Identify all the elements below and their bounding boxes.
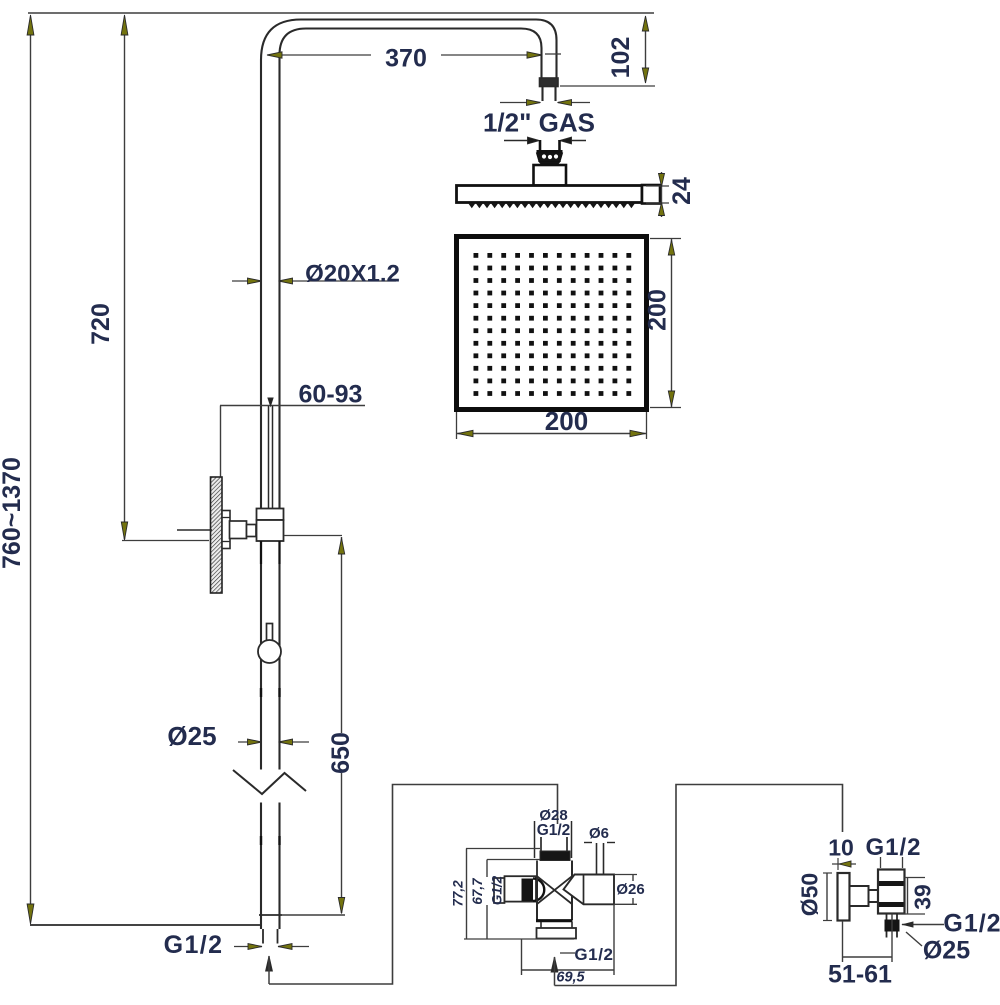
svg-text:Ø25: Ø25: [167, 721, 216, 751]
svg-text:Ø6: Ø6: [589, 825, 609, 842]
svg-text:39: 39: [910, 884, 936, 910]
svg-text:200: 200: [545, 406, 588, 436]
svg-text:1/2" GAS: 1/2" GAS: [483, 108, 595, 138]
svg-text:G1/2: G1/2: [164, 931, 224, 959]
svg-text:60-93: 60-93: [299, 381, 363, 409]
svg-text:760~1370: 760~1370: [0, 457, 26, 569]
svg-text:102: 102: [607, 37, 635, 79]
svg-text:G1/2: G1/2: [490, 875, 505, 905]
svg-text:720: 720: [87, 303, 115, 345]
svg-text:Ø50: Ø50: [797, 873, 823, 916]
svg-text:77,2: 77,2: [451, 880, 466, 907]
svg-text:G1/2: G1/2: [537, 822, 571, 839]
svg-text:G1/2: G1/2: [865, 834, 921, 861]
svg-text:650: 650: [327, 732, 355, 774]
svg-text:10: 10: [828, 835, 854, 861]
svg-text:24: 24: [668, 177, 696, 205]
svg-text:51-61: 51-61: [828, 961, 892, 989]
svg-text:Ø20X1.2: Ø20X1.2: [305, 261, 400, 288]
svg-text:67,7: 67,7: [470, 877, 485, 905]
svg-text:G1/2: G1/2: [574, 945, 613, 964]
svg-text:Ø26: Ø26: [616, 881, 644, 898]
svg-text:370: 370: [385, 45, 427, 73]
svg-text:G1/2: G1/2: [943, 910, 1000, 938]
svg-text:200: 200: [644, 289, 672, 331]
svg-text:Ø25: Ø25: [923, 937, 970, 965]
svg-text:69,5: 69,5: [556, 970, 585, 986]
